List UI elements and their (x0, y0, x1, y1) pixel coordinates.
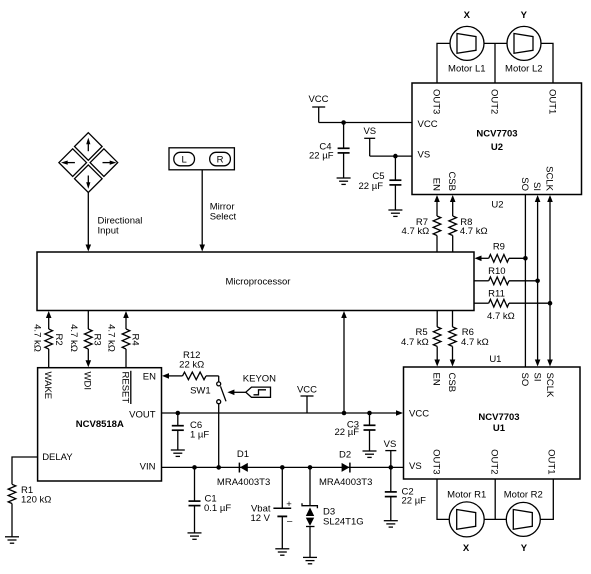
svg-text:+: + (286, 499, 292, 510)
svg-text:R4: R4 (130, 334, 141, 346)
wire DELAY to R1 (12, 457, 38, 484)
svg-text:R3: R3 (92, 334, 103, 346)
svg-text:DELAY: DELAY (42, 452, 73, 463)
net VS (top terminal) (363, 126, 376, 156)
svg-text:4.7 kΩ: 4.7 kΩ (105, 324, 116, 352)
svg-text:WDI: WDI (82, 372, 93, 390)
svg-text:120 kΩ: 120 kΩ (21, 494, 51, 505)
svg-text:MRA4003T3: MRA4003T3 (319, 477, 372, 488)
svg-text:CSB: CSB (446, 171, 457, 191)
svg-text:4.7 kΩ: 4.7 kΩ (68, 324, 79, 352)
ground (Vbat) (275, 549, 289, 555)
svg-text:U2: U2 (491, 142, 503, 153)
svg-text:SCLK: SCLK (543, 166, 554, 191)
wire OUT3 of U1 to motor R1 (437, 479, 449, 519)
svg-text:NCV7703: NCV7703 (478, 412, 519, 423)
svg-text:R11: R11 (488, 289, 505, 300)
svg-text:Y: Y (521, 10, 528, 21)
wire VCC rail to microprocessor (341, 311, 347, 413)
svg-text:VS: VS (384, 439, 397, 450)
capacitor C4 (309, 123, 350, 179)
motor R1 (447, 489, 486, 537)
keyon signal source (227, 373, 276, 397)
svg-text:Motor L1: Motor L1 (448, 63, 486, 74)
directional pad switch (59, 133, 118, 193)
resistor R12 (162, 350, 219, 382)
svg-text:Motor R2: Motor R2 (504, 489, 543, 500)
svg-text:Select: Select (210, 212, 237, 223)
svg-text:VCC: VCC (418, 119, 438, 130)
resistor R10 (474, 266, 538, 285)
microprocessor U4 (37, 252, 474, 311)
junction Vbat/VIN rail (280, 465, 285, 470)
wire VS rail to U2 VS pin (370, 155, 412, 157)
ground (C5) (388, 210, 402, 216)
svg-text:L: L (182, 154, 187, 165)
wire OUT3 of U2 to motor L1 (437, 43, 450, 83)
resistor R3 (68, 311, 103, 368)
svg-text:R2: R2 (53, 334, 64, 346)
wire mirror select to microprocessor (199, 170, 205, 252)
svg-text:Motor L2: Motor L2 (505, 63, 543, 74)
capacitor C6 (172, 413, 210, 450)
svg-text:22 µF: 22 µF (359, 181, 384, 192)
wire motor R1 to motor R2 with tap to OUT2 of U1 (484, 479, 506, 519)
svg-text:KEYON: KEYON (243, 373, 276, 384)
svg-text:X: X (464, 10, 471, 21)
ground (C3) (363, 451, 377, 457)
battery Vbat 12V (250, 467, 293, 548)
junction C3/VCC rail (367, 411, 372, 416)
capacitor C3 (335, 413, 376, 451)
ground (C4) (337, 178, 351, 184)
wire net SO (U2 to U1) (523, 195, 528, 368)
svg-text:VCC: VCC (308, 94, 328, 105)
ground (C6) (171, 450, 185, 456)
wire motor R2 to OUT1 of U1 (540, 479, 553, 519)
svg-text:0.1 µF: 0.1 µF (204, 503, 231, 514)
motor L2 (505, 26, 543, 74)
svg-text:4.7 kΩ: 4.7 kΩ (460, 226, 488, 237)
ground (C1) (188, 533, 202, 539)
svg-text:22 µF: 22 µF (335, 427, 360, 438)
motor L1 (448, 26, 486, 74)
regulator IC U3 NCV8518A (38, 368, 162, 481)
resistor R7 (402, 195, 441, 252)
svg-text:EN: EN (430, 178, 441, 191)
svg-text:NCV7703: NCV7703 (476, 129, 517, 140)
resistor R1 (8, 484, 51, 537)
junction VS stub (389, 465, 394, 470)
junction microprocessor supply (342, 411, 347, 416)
svg-text:Input: Input (98, 226, 119, 237)
svg-text:U1: U1 (493, 423, 506, 434)
svg-text:SO: SO (519, 373, 530, 387)
net VCC (mid terminal) (297, 385, 317, 414)
svg-text:U2: U2 (491, 200, 503, 211)
diode D3 (TVS) (302, 467, 364, 557)
svg-text:D1: D1 (237, 449, 249, 460)
svg-text:–: – (287, 516, 293, 527)
svg-text:SL24T1G: SL24T1G (323, 516, 364, 527)
svg-text:R9: R9 (493, 242, 505, 253)
svg-text:SO: SO (519, 177, 530, 191)
wire motor L1 to motor L2 with tap to OUT2 of U2 (484, 43, 507, 83)
wire SW1 to VIN rail (218, 404, 220, 468)
svg-text:22 µF: 22 µF (309, 150, 334, 161)
svg-text:VOUT: VOUT (129, 410, 156, 421)
label Directional Input (98, 216, 143, 237)
svg-text:X: X (463, 543, 470, 554)
svg-text:VS: VS (418, 150, 431, 161)
resistor R9 (475, 242, 526, 263)
svg-text:22 µF: 22 µF (402, 495, 427, 506)
wire VOUT/VCC rail to U1 VCC pin (162, 410, 404, 416)
capacitor C2 (385, 467, 426, 520)
svg-text:OUT3: OUT3 (430, 449, 441, 474)
svg-text:OUT1: OUT1 (545, 449, 556, 474)
junction D3/VIN rail (308, 465, 313, 470)
wire net SCLK (U2 to U1) (547, 195, 553, 367)
svg-text:Microprocessor: Microprocessor (226, 277, 291, 288)
net VCC (top terminal) (308, 94, 328, 123)
op IC U2 NCV7703 (412, 83, 582, 195)
wire VIN/VS rail to U1 VS pin (162, 466, 404, 468)
junction C4/VCC (341, 120, 346, 125)
svg-text:R: R (217, 154, 224, 165)
svg-text:MRA4003T3: MRA4003T3 (217, 477, 270, 488)
svg-text:SI: SI (531, 373, 542, 382)
wire directional pad to microprocessor (86, 193, 92, 252)
svg-text:SCLK: SCLK (544, 373, 555, 398)
wire VCC rail to U2 VCC pin (319, 122, 412, 124)
net VS (mid terminal) (384, 439, 397, 467)
svg-text:WAKE: WAKE (42, 372, 53, 400)
junction C5/VS (393, 154, 398, 159)
op IC U1 NCV7703 (404, 367, 581, 479)
svg-text:4.7 kΩ: 4.7 kΩ (32, 324, 43, 352)
svg-text:Motor R1: Motor R1 (447, 489, 486, 500)
resistor R5 (401, 311, 441, 367)
svg-text:22 kΩ: 22 kΩ (179, 360, 204, 371)
svg-text:VS: VS (363, 126, 376, 137)
svg-text:OUT2: OUT2 (488, 89, 499, 114)
wire net SI (U2 to U1) (535, 195, 541, 367)
svg-text:OUT1: OUT1 (546, 89, 557, 114)
resistor R2 (32, 311, 64, 368)
switch SW1 (190, 382, 226, 404)
svg-text:U1: U1 (489, 354, 501, 365)
diode D1 (217, 449, 270, 488)
svg-text:Y: Y (521, 543, 528, 554)
resistor R11 (474, 289, 550, 308)
svg-text:CSB: CSB (446, 373, 457, 393)
junction C1/VIN rail (192, 465, 197, 470)
svg-text:RESET: RESET (119, 372, 130, 404)
capacitor C1 (189, 467, 232, 533)
svg-text:4.7 kΩ: 4.7 kΩ (461, 337, 489, 348)
capacitor C5 (359, 156, 402, 210)
svg-text:R10: R10 (488, 266, 505, 277)
svg-text:VS: VS (409, 461, 422, 472)
svg-text:OUT3: OUT3 (430, 89, 441, 114)
label Mirror Select (210, 201, 237, 222)
svg-text:12 V: 12 V (250, 513, 270, 524)
svg-text:4.7 kΩ: 4.7 kΩ (487, 311, 515, 322)
mirror select switch (169, 148, 234, 170)
svg-text:4.7 kΩ: 4.7 kΩ (402, 226, 430, 237)
diode D2 (319, 449, 372, 488)
svg-text:EN: EN (143, 371, 156, 382)
svg-text:D2: D2 (339, 449, 351, 460)
ground (C2) (384, 521, 398, 527)
svg-text:4.7 kΩ: 4.7 kΩ (401, 337, 429, 348)
motor R2 (504, 489, 543, 536)
resistor R8 (449, 195, 488, 252)
resistor R4 (105, 311, 140, 368)
svg-text:VCC: VCC (409, 408, 429, 419)
svg-text:1 µF: 1 µF (190, 429, 209, 440)
svg-text:VCC: VCC (297, 385, 317, 396)
svg-text:OUT2: OUT2 (489, 449, 500, 474)
svg-text:EN: EN (431, 373, 442, 386)
svg-text:SW1: SW1 (190, 385, 211, 396)
svg-text:VIN: VIN (140, 461, 156, 472)
ground (R1) (5, 537, 19, 543)
svg-text:NCV8518A: NCV8518A (76, 419, 124, 430)
junction SW1/VIN rail (216, 465, 221, 470)
junction C6/VCC rail (176, 411, 181, 416)
wire motor L2 to OUT1 of U2 (541, 43, 553, 83)
ground (D3) (303, 557, 317, 563)
resistor R6 (449, 311, 489, 367)
svg-text:SI: SI (531, 182, 542, 191)
